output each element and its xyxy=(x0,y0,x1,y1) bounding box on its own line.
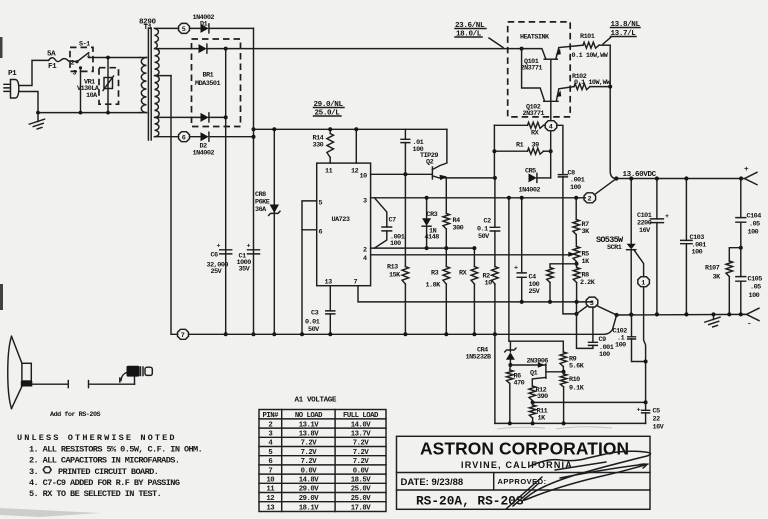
node: R1 left dot xyxy=(492,149,496,153)
wire SCR gate line down xyxy=(644,287,646,403)
bridge diode (top) xyxy=(199,44,226,53)
wire node 3 left slant xyxy=(577,306,587,314)
wire node2 line down to crowbar xyxy=(508,198,510,341)
svg-text:1N5232B: 1N5232B xyxy=(466,354,491,362)
ground (output) xyxy=(705,314,722,328)
svg-text:DATE: 9/23/88: DATE: 9/23/88 xyxy=(401,477,464,488)
switch S1 contacts and lever xyxy=(70,52,93,78)
svg-text:+: + xyxy=(217,243,221,251)
node: C103 bottom dot xyxy=(684,312,688,316)
svg-text:12: 12 xyxy=(351,168,359,176)
svg-text:4148: 4148 xyxy=(425,234,440,242)
svg-text:100: 100 xyxy=(749,292,760,300)
svg-text:330: 330 xyxy=(313,142,324,150)
wire D1/D2 cathode vertical xyxy=(253,28,255,334)
svg-text:SCR1: SCR1 xyxy=(607,244,622,252)
node: CR3 bottom dot xyxy=(425,246,429,250)
svg-text:25V: 25V xyxy=(529,288,541,296)
svg-text:Add for RS-20S: Add for RS-20S xyxy=(50,411,101,419)
node: CR4/R6/Q1 emitter junction xyxy=(508,363,512,367)
svg-text:14.8V: 14.8V xyxy=(299,477,320,485)
svg-text:R101: R101 xyxy=(580,33,595,41)
capacitor C5 22 16V xyxy=(637,402,665,431)
svg-text:7.2V: 7.2V xyxy=(353,449,370,457)
capacitor C104 .05 100 xyxy=(736,179,761,248)
svg-text:3: 3 xyxy=(73,70,77,78)
node: R9/R10/base junction xyxy=(562,370,566,374)
wire Q102 collector feed xyxy=(522,49,545,101)
node 6 (pcb node hexagon) xyxy=(179,132,190,143)
transformer core xyxy=(148,28,151,140)
svg-text:+: + xyxy=(514,265,518,273)
svg-text:13.8V: 13.8V xyxy=(299,431,320,439)
wire switch to transformer primary top xyxy=(93,57,140,59)
svg-text:11: 11 xyxy=(325,168,333,176)
node 4 (pcb node hexagon) xyxy=(545,121,557,132)
resistor R8 2.2K xyxy=(573,262,595,314)
capacitor .01 100 (rail to Q2 base) xyxy=(401,129,424,174)
svg-text:5. RX TO BE SELECTED IN TEST.: 5. RX TO BE SELECTED IN TEST. xyxy=(29,489,161,499)
resistor RX (base drive) xyxy=(494,122,545,137)
switch S1 dashed box xyxy=(70,41,93,72)
svg-text:22: 22 xyxy=(653,416,661,424)
svg-text:2N3771: 2N3771 xyxy=(521,65,543,73)
svg-text:2N3771: 2N3771 xyxy=(523,110,545,118)
node: C1 bus dot xyxy=(252,332,256,336)
svg-text:300: 300 xyxy=(453,225,464,233)
node: gate/C5 junction xyxy=(644,400,648,404)
capacitor C6 32,000 25V xyxy=(207,243,232,277)
svg-text:7.2V: 7.2V xyxy=(353,440,370,448)
svg-text:PIN#: PIN# xyxy=(263,412,280,420)
svg-text:5: 5 xyxy=(268,449,272,457)
svg-text:6: 6 xyxy=(182,135,186,143)
svg-text:9.1K: 9.1K xyxy=(569,385,585,393)
wire crowbar top line xyxy=(509,340,563,342)
speaker wire left xyxy=(31,381,68,388)
bridge diode (bottom) xyxy=(201,113,226,122)
terminal - (output) xyxy=(744,308,759,328)
node 3 (pcb node hexagon) xyxy=(586,297,598,308)
transistor Q2 TIP29 xyxy=(420,129,494,180)
svg-text:10A: 10A xyxy=(86,92,98,100)
capacitor C1 1000 35V xyxy=(237,243,260,274)
svg-text:25.0V: 25.0V xyxy=(351,486,372,494)
node: C3 bus dot xyxy=(328,332,332,336)
svg-text:2: 2 xyxy=(588,196,592,204)
capacitor C8 .001 100 (node4 to neg bus) xyxy=(557,125,585,314)
svg-text:29.0V: 29.0V xyxy=(299,486,320,494)
node: R5/R8 junction xyxy=(575,262,579,266)
node: C102/gate junction xyxy=(644,360,648,364)
wire R12 junction to gate line xyxy=(533,401,646,403)
svg-text:10: 10 xyxy=(360,173,368,181)
svg-text:6: 6 xyxy=(268,458,272,466)
resistor R11 1K xyxy=(529,402,547,423)
wire pin 4 line to R5 wiper xyxy=(371,254,570,256)
svg-text:C2: C2 xyxy=(484,218,492,226)
svg-text:UA723: UA723 xyxy=(332,216,350,224)
svg-text:+: + xyxy=(247,243,251,251)
svg-text:C5: C5 xyxy=(653,408,661,416)
wire +13.6V output bus xyxy=(616,178,741,180)
resistor R1 39 xyxy=(494,142,550,155)
node: R3 bus dot xyxy=(444,332,448,336)
wire pin 10 line to Q2 base xyxy=(371,173,432,175)
svg-text:Q1: Q1 xyxy=(530,370,538,378)
svg-text:A1 VOLTAGE: A1 VOLTAGE xyxy=(295,397,337,405)
wire common base line to node 4 xyxy=(550,59,552,120)
node: R8 bottom bus dot xyxy=(575,300,579,304)
node: R2 bus dot xyxy=(493,332,497,336)
capacitor C105 .05 100 xyxy=(736,248,762,315)
svg-text:1N4002: 1N4002 xyxy=(519,187,541,195)
svg-text:2N3906: 2N3906 xyxy=(527,358,549,366)
svg-text:2.2K: 2.2K xyxy=(580,279,596,287)
svg-text:12: 12 xyxy=(266,495,274,503)
svg-text:.05: .05 xyxy=(749,221,760,229)
capacitor C9 .001 100 (node 3 bypass) xyxy=(577,307,614,359)
svg-text:+: + xyxy=(665,213,669,221)
transformer primary winding xyxy=(141,58,146,113)
svg-text:1. ALL RESISTORS 5% 0.5W, C.F.: 1. ALL RESISTORS 5% 0.5W, C.F. IN OHM. xyxy=(29,445,202,455)
svg-text:100: 100 xyxy=(692,249,703,257)
resistor R9 5.6K xyxy=(560,341,585,372)
node: bridge bottom diode junction xyxy=(224,115,228,119)
svg-text:FULL LOAD: FULL LOAD xyxy=(343,412,379,420)
node: C4 top dot xyxy=(520,196,524,200)
wire crowbar left edge xyxy=(494,334,496,423)
varistor VR1 V130LA 10A xyxy=(77,58,119,113)
node: CR8 bus dot xyxy=(272,332,276,336)
node: R107 bottom dot xyxy=(727,312,731,316)
node: VR1 bottom dot xyxy=(106,111,110,115)
node: bridge top diode junction xyxy=(224,47,228,51)
svg-text:-: - xyxy=(747,321,751,329)
scan edge artifacts xyxy=(0,37,3,310)
node: bus start dot xyxy=(614,176,618,180)
node: RX bus dot xyxy=(472,332,476,336)
svg-text:100: 100 xyxy=(599,351,610,359)
svg-text:7: 7 xyxy=(268,467,272,475)
svg-text:13: 13 xyxy=(266,504,275,512)
svg-text:5: 5 xyxy=(319,200,323,208)
transistor Q101 2N3771 xyxy=(521,45,584,72)
node: C101 top dot xyxy=(655,176,659,180)
svg-text:3: 3 xyxy=(363,198,367,206)
node: C6 bus dot xyxy=(224,332,228,336)
svg-text:R107: R107 xyxy=(705,265,720,273)
svg-text:1N4002: 1N4002 xyxy=(193,150,215,158)
wire node 3 right slant to negative rail xyxy=(597,306,617,316)
node: C2 column top dot on emitter line xyxy=(493,176,497,180)
svg-text:7.2V: 7.2V xyxy=(353,458,370,466)
resistor R4 300 (emitter line to pin2 line) xyxy=(443,178,464,248)
svg-text:13.7V: 13.7V xyxy=(351,431,372,439)
transformer secondary winding xyxy=(155,28,160,136)
label 29.0/NL 25.0/L xyxy=(314,101,345,118)
capacitor C101 2200 16V xyxy=(637,179,669,315)
capacitor C4 100 25V (node2 line to gnd) xyxy=(514,198,541,302)
wire emitter resistors to 13.6V bus xyxy=(610,45,616,178)
node: R6 bottom rail dot xyxy=(508,421,512,425)
zener CR3 1N4148 (pin3 line to pin2 line) xyxy=(422,198,439,248)
svg-text:2: 2 xyxy=(268,421,272,429)
svg-text:35V: 35V xyxy=(239,266,251,274)
svg-text:R13: R13 xyxy=(387,264,398,272)
node: ground stem dot xyxy=(712,312,716,316)
node: R1 right dot xyxy=(549,149,553,153)
svg-text:50V: 50V xyxy=(308,326,320,334)
svg-text:5: 5 xyxy=(182,26,186,34)
resistor R6 470 xyxy=(507,365,525,423)
wire crowbar bottom rail xyxy=(495,422,646,424)
wire ground bus (node 7 rail) xyxy=(189,315,617,334)
node 1 (pcb node hexagon) xyxy=(638,277,650,288)
resistor RX (pin2 line to gnd bus) xyxy=(459,248,478,334)
svg-text:P1: P1 xyxy=(8,70,17,78)
svg-text:7.2V: 7.2V xyxy=(301,440,318,448)
wire RX left vertical xyxy=(493,125,495,178)
transistor Q102 2N3771 xyxy=(523,87,575,118)
svg-text:R3: R3 xyxy=(431,270,439,278)
node: pin 12 rail dot xyxy=(354,127,358,131)
op-amp U1 UA723 box xyxy=(317,163,371,286)
svg-text:2. ALL CAPACITORS IN MICROFARA: 2. ALL CAPACITORS IN MICROFARADS. xyxy=(29,456,179,466)
svg-text:R10: R10 xyxy=(569,376,580,384)
note hexagon symbol xyxy=(43,467,51,473)
node 7 (pcb node hexagon) xyxy=(178,329,189,340)
node: R11 bottom rail dot xyxy=(531,421,535,425)
wire loop to ground bus xyxy=(301,230,303,334)
wire pin 7 to ground bus of regulator xyxy=(358,286,592,302)
svg-text:7: 7 xyxy=(354,279,358,287)
node: crowbar feed dot xyxy=(507,196,511,200)
svg-text:470: 470 xyxy=(514,380,525,388)
node: CR3 top dot xyxy=(425,196,429,200)
wire 29V control rail xyxy=(254,128,447,130)
wire bridge output vertical (raw DC +) xyxy=(225,49,227,335)
wire switch pole 3 down to bottom wire xyxy=(80,71,82,112)
svg-text:6: 6 xyxy=(319,229,323,237)
svg-text:CR5: CR5 xyxy=(525,168,536,176)
svg-text:1K: 1K xyxy=(582,258,591,266)
svg-text:100: 100 xyxy=(615,342,626,350)
node: junction dot bottom wire / ground xyxy=(36,111,40,115)
svg-text:100: 100 xyxy=(748,229,759,237)
svg-text:C6: C6 xyxy=(211,252,219,260)
svg-text:+: + xyxy=(744,166,749,174)
node: SCR top dot xyxy=(629,176,633,180)
wire node4 to R1/CR5 vertical xyxy=(550,131,552,178)
heatsink dashed box xyxy=(508,22,571,117)
svg-text:R1: R1 xyxy=(516,142,524,150)
node: C105 bottom dot xyxy=(739,312,743,316)
resistor R10 9.1K xyxy=(560,372,584,424)
svg-text:0.0V: 0.0V xyxy=(301,467,318,475)
node: RX top dot xyxy=(472,246,476,250)
svg-text:25.0V: 25.0V xyxy=(351,495,372,503)
capacitor C2 0.1 50V with resistor R2 10 column xyxy=(477,178,500,334)
svg-text:1K: 1K xyxy=(538,415,547,423)
svg-text:3K: 3K xyxy=(582,228,591,236)
capacitor C7 .001 100 (pin3 to pin2) xyxy=(375,198,405,248)
zener CR4 1N5232B xyxy=(466,341,517,365)
svg-text:18.1V: 18.1V xyxy=(299,504,320,512)
node: C101 bottom dot xyxy=(655,312,659,316)
node: 29V rail tee xyxy=(252,127,256,131)
svg-text:4. C7-C9 ADDED FOR R.F BY PASS: 4. C7-C9 ADDED FOR R.F BY PASSING xyxy=(29,478,180,488)
resistor R101 0.1 10W xyxy=(572,33,611,60)
node 5 (pcb node hexagon) xyxy=(179,23,190,34)
svg-text:13.1V: 13.1V xyxy=(299,421,320,429)
svg-text:IRVINE, CALIFORNIA: IRVINE, CALIFORNIA xyxy=(461,460,573,470)
label 23.6/NL 18.0/L xyxy=(455,22,503,48)
svg-text:10: 10 xyxy=(485,280,493,288)
svg-text:NO LOAD: NO LOAD xyxy=(295,412,323,420)
resistor R3 1.8K (pin2 line to gnd bus) xyxy=(426,248,450,334)
node: R12/R11 junction xyxy=(531,400,535,404)
svg-text:3K: 3K xyxy=(713,274,722,282)
svg-text:Q2: Q2 xyxy=(426,159,434,167)
node: R13 bus dot xyxy=(403,332,407,336)
svg-text:C105: C105 xyxy=(748,276,763,284)
node: VR1 top dot xyxy=(106,56,110,60)
zener CR8 P6KE 36A xyxy=(255,129,280,334)
svg-text:S-1: S-1 xyxy=(79,41,90,49)
wire pin 13 stub xyxy=(329,286,331,311)
terminal + (output) xyxy=(741,166,757,185)
signature xyxy=(506,451,651,509)
node: D2 cathode junction xyxy=(252,135,256,139)
svg-text:15K: 15K xyxy=(389,272,401,280)
svg-text:2: 2 xyxy=(363,247,367,255)
wire pin 3 line to node 2 xyxy=(371,197,586,199)
svg-text:C104: C104 xyxy=(747,213,762,221)
svg-text:0.1 10W,WW: 0.1 10W,WW xyxy=(574,79,611,87)
svg-text:4: 4 xyxy=(363,255,367,263)
svg-text:5A: 5A xyxy=(47,51,56,59)
node: SCR cathode on neg rail xyxy=(629,313,633,317)
node: R7 top dot xyxy=(574,196,578,200)
resistor (R5 lower arm to gnd) xyxy=(547,264,577,302)
node: R102 junction on vertical xyxy=(608,85,612,89)
speaker xyxy=(8,336,33,408)
node: dot at switch-3 / bottom wire xyxy=(79,111,83,115)
svg-text:C7: C7 xyxy=(389,217,397,225)
resistor R13 15K xyxy=(387,174,409,334)
wire plug bottom lead xyxy=(19,92,140,113)
node: collector feed dot xyxy=(520,47,524,51)
resistor R14 330 xyxy=(313,129,334,163)
svg-text:390: 390 xyxy=(537,393,548,401)
node 2 (pcb node hexagon) xyxy=(584,193,596,204)
svg-text:D1: D1 xyxy=(200,21,208,29)
capacitor C102 .1 100 (gate-cathode) xyxy=(613,315,646,362)
wire plug top lead to fuse xyxy=(19,60,49,85)
svg-text:CR3: CR3 xyxy=(427,211,438,219)
svg-text:3.: 3. xyxy=(29,467,38,477)
svg-text:C9: C9 xyxy=(599,336,607,344)
node: C104/R107/C105 junction xyxy=(739,246,743,250)
node: cap/base junction xyxy=(403,172,407,176)
svg-text:RX: RX xyxy=(459,270,468,278)
svg-text:F1: F1 xyxy=(48,63,57,71)
resistor R7 3K xyxy=(573,198,590,247)
node: C4 bottom dot xyxy=(520,300,524,304)
node: R10 bottom rail dot xyxy=(562,421,566,425)
svg-text:0.1 10W,WW: 0.1 10W,WW xyxy=(572,52,609,60)
diode CR5 1N4002 xyxy=(519,168,551,195)
svg-text:11: 11 xyxy=(266,486,275,494)
svg-text:100: 100 xyxy=(570,184,581,192)
svg-text:36A: 36A xyxy=(255,206,267,214)
svg-text:0.0V: 0.0V xyxy=(353,467,370,475)
capacitor C3 0.01 50V xyxy=(305,310,335,335)
svg-text:14.0V: 14.0V xyxy=(351,421,372,429)
svg-text:100: 100 xyxy=(390,240,401,248)
plug P1 xyxy=(4,70,19,98)
center tap wire down to node 7 xyxy=(171,76,178,335)
svg-text:C3: C3 xyxy=(311,310,319,318)
resistor R107 3K xyxy=(705,248,741,315)
node: loop bus dot xyxy=(300,332,304,336)
wire raw DC bus to heatsink collectors xyxy=(226,48,522,50)
svg-text:18.5V: 18.5V xyxy=(351,477,372,485)
svg-text:UNLESS OTHERWISE NOTED: UNLESS OTHERWISE NOTED xyxy=(17,433,177,443)
svg-text:MDA3501: MDA3501 xyxy=(195,80,220,88)
svg-text:RS-20A, RS-20S: RS-20A, RS-20S xyxy=(416,494,524,509)
resistor R12 390 xyxy=(529,386,548,402)
diode D1 1N4002 xyxy=(190,14,254,33)
svg-text:16V: 16V xyxy=(639,227,651,235)
wire negative output rail xyxy=(617,313,745,316)
wire pin 5/6 external loop xyxy=(302,201,317,230)
wire pin 2 line xyxy=(371,247,474,249)
svg-text:50V: 50V xyxy=(478,233,490,241)
node: CR8 top tee on 29V rail xyxy=(272,127,276,131)
diode D2 1N4002 xyxy=(190,132,254,157)
wire pin 12 stub to rail xyxy=(355,129,357,163)
secondary tap wires xyxy=(155,28,201,136)
node: R4 bottom dot xyxy=(444,246,448,250)
node: C104 bus dot xyxy=(739,176,743,180)
svg-text:.05: .05 xyxy=(750,284,761,292)
speaker wire right xyxy=(89,377,135,388)
phone plug xyxy=(120,366,153,382)
node: lower arm bus dot xyxy=(548,300,552,304)
svg-text:7.2V: 7.2V xyxy=(301,458,318,466)
node: R14 top tee xyxy=(328,127,332,131)
node: C103 top dot xyxy=(684,176,688,180)
resistor R102 0.1 10W xyxy=(572,73,611,90)
label 13.8/NL 13.7/L xyxy=(603,21,640,44)
transistor Q1 2N3906 xyxy=(510,358,563,387)
svg-text:10: 10 xyxy=(266,477,274,485)
svg-text:PRINTED CIRCUIT BOARD.: PRINTED CIRCUIT BOARD. xyxy=(58,467,158,477)
svg-text:RX: RX xyxy=(531,130,540,138)
svg-text:25V: 25V xyxy=(211,268,223,276)
fuse F1 5A xyxy=(47,51,70,72)
wire node 2 slant to 13.6V bus xyxy=(595,179,617,195)
ground (AC input) xyxy=(29,113,46,131)
bridge BR1 MDA3501 dashed box xyxy=(192,39,241,127)
svg-text:7.2V: 7.2V xyxy=(301,449,318,457)
thyristor SCR1 SO535W xyxy=(596,179,644,315)
capacitor C103 .001 100 xyxy=(681,179,707,315)
svg-text:BR1: BR1 xyxy=(203,72,214,80)
node: junction below node 3 xyxy=(575,312,579,316)
